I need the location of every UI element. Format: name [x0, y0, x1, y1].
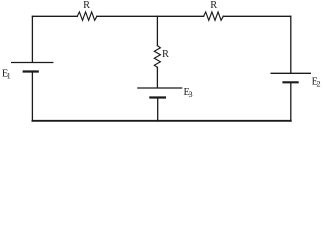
wire bottom [32, 120, 290, 122]
wire middle branch lower [157, 98, 159, 121]
wire left branch lower [31, 72, 33, 121]
svg-text:E1: E1 [2, 68, 11, 80]
wire top-middle segment [97, 15, 204, 17]
svg-text:R: R [83, 0, 90, 11]
wire top-left segment [32, 15, 77, 17]
battery E2 [271, 73, 312, 82]
svg-text:E2: E2 [312, 77, 321, 89]
resistor R2 (top-right) [204, 12, 224, 20]
wire top-right segment [223, 15, 290, 17]
wire left branch upper [31, 16, 33, 62]
wire middle branch upper [156, 16, 158, 45]
battery E1 [11, 63, 54, 72]
resistor R1 (top-left) [77, 12, 97, 20]
svg-text:R: R [210, 0, 217, 11]
battery E3 [137, 88, 182, 98]
wire right branch upper [290, 16, 292, 73]
svg-text:E3: E3 [184, 87, 193, 99]
wire right branch lower [290, 83, 292, 121]
resistor R3 (middle vertical) [154, 46, 160, 68]
svg-text:R: R [162, 49, 169, 60]
wire middle branch mid [156, 67, 158, 87]
